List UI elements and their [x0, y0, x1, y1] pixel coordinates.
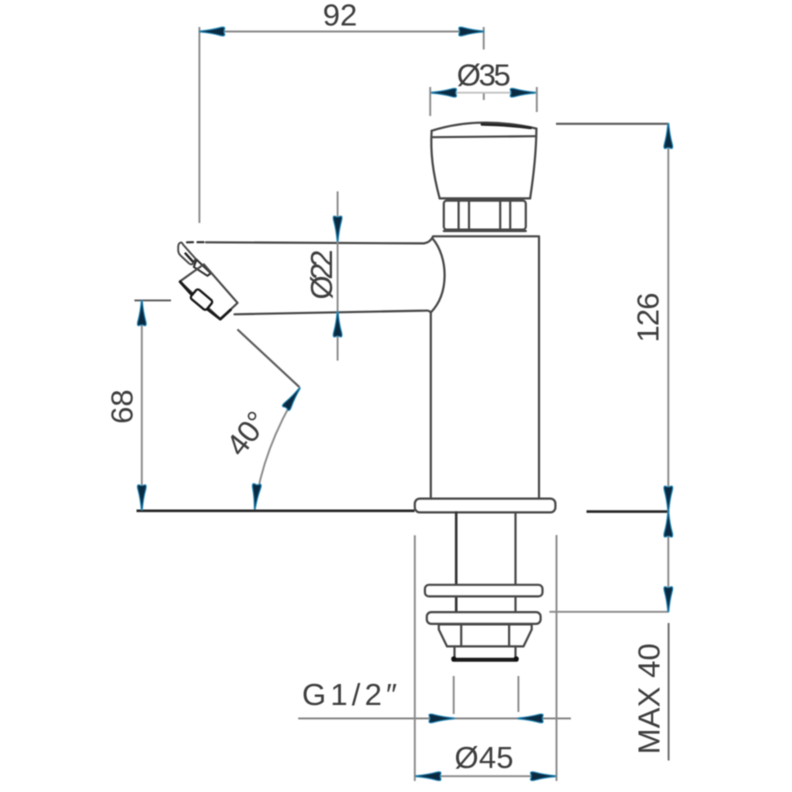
spout-body fillet bulge [431, 239, 445, 313]
body column [431, 236, 539, 497]
svg-text:MAX 40: MAX 40 [631, 643, 666, 754]
arrow O35 right [510, 88, 535, 97]
arrow G1/2 left (outside, points right) [429, 714, 454, 723]
arrow O22 top (points down) [333, 216, 342, 241]
threaded shank [456, 513, 515, 624]
dim MAX40: vertical line, washer leader, underline [549, 512, 668, 761]
svg-text:Ø35: Ø35 [457, 58, 511, 93]
dim 68: line and top tick [134, 300, 171, 510]
svg-text:92: 92 [323, 0, 357, 33]
dim 40deg: leader line and arc [237, 329, 299, 508]
arrow 40deg arc bottom (points down) [250, 483, 261, 509]
hex nut [439, 624, 532, 646]
washer lower [427, 612, 541, 624]
baseline right segment [587, 510, 670, 513]
arrow 68 bottom (points down) [137, 485, 146, 510]
spout tip aerator [178, 242, 237, 319]
arrow MAX40 bottom (points down) [664, 587, 673, 612]
baseline left segment [137, 509, 415, 512]
arrow O45 left (points left) [416, 772, 441, 781]
arrow O45 right (points right) [530, 772, 555, 781]
shank bottom end [451, 647, 519, 662]
knob cap [431, 123, 536, 199]
dim 92: line and extensions [199, 27, 483, 223]
arrow O22 bottom (points up) [333, 312, 342, 337]
svg-text:Ø22: Ø22 [304, 250, 339, 300]
dim O35: line and extensions [430, 87, 537, 116]
arrow O35 left [431, 88, 456, 97]
dim 126: vertical line and top reference leader [556, 124, 668, 511]
dim G1/2: leader line and extensions [298, 676, 571, 718]
base flange [415, 499, 556, 513]
dim O22 vertical line [337, 191, 339, 360]
spout tube [187, 237, 433, 315]
arrow 92 right [459, 27, 484, 36]
svg-text:68: 68 [104, 389, 139, 423]
arrow MAX40 top (points up) [664, 512, 673, 537]
arrow 68 top (points up) [137, 301, 146, 326]
arrow 126 top (points up) [664, 123, 673, 148]
washer upper [425, 585, 543, 597]
arrow 92 left [200, 27, 225, 36]
arrow G1/2 right (outside, points left) [518, 714, 543, 723]
arrow 40deg arc top (points up-right) [282, 385, 304, 411]
knob ribbed ring [444, 201, 526, 231]
svg-text:126: 126 [630, 293, 665, 343]
svg-text:Ø45: Ø45 [455, 740, 514, 775]
dim O45: line and extensions [415, 535, 557, 781]
arrow 126 bottom (points down) [664, 486, 673, 511]
